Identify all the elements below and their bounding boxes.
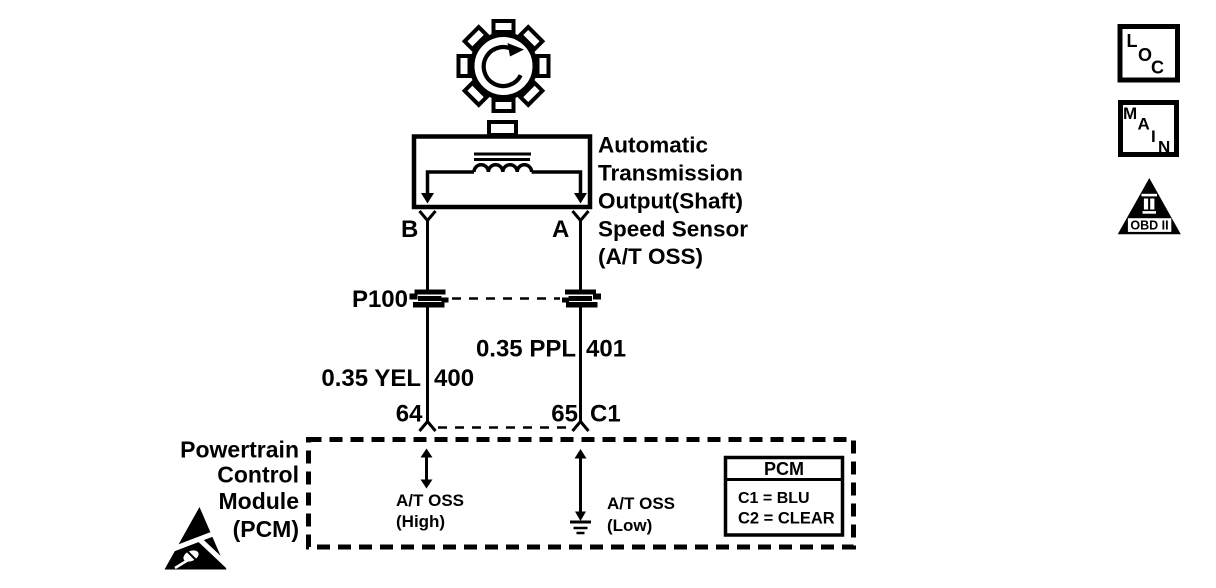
wire 400 (P100 to PCM pin 64) [426, 307, 429, 421]
gear / reluctor wheel icon of speed sensor [459, 21, 549, 111]
svg-text:B: B [401, 216, 418, 243]
svg-text:Control: Control [217, 462, 299, 488]
svg-text:C: C [1151, 58, 1164, 78]
svg-text:N: N [1158, 138, 1170, 157]
svg-text:PCM: PCM [764, 459, 804, 479]
sensor mounting tab [489, 122, 516, 135]
svg-text:I: I [1151, 127, 1156, 146]
svg-text:OBD II: OBD II [1130, 219, 1168, 233]
connector terminal Y at pin 65 [573, 422, 589, 432]
inductor coil L1 [474, 165, 532, 172]
OBD II symbol triangle [1118, 178, 1181, 234]
wire A to P100 [579, 220, 582, 291]
inductor core lines [474, 153, 531, 156]
connector terminal Y at pin A [573, 211, 589, 221]
wire from coil left end to internal terminal B [428, 172, 475, 194]
svg-text:C2 = CLEAR: C2 = CLEAR [738, 510, 835, 528]
inline connector P100 left half [410, 290, 449, 308]
PCM dashed box [309, 440, 854, 548]
svg-text:Module: Module [219, 488, 300, 514]
internal arrow at terminal B [421, 193, 434, 204]
svg-text:Speed Sensor: Speed Sensor [598, 217, 748, 242]
MAIN reference box [1121, 103, 1177, 157]
svg-text:0.35 YEL: 0.35 YEL [321, 365, 421, 392]
svg-text:400: 400 [434, 365, 474, 392]
svg-text:P100: P100 [352, 286, 408, 313]
dashed connector line P100 [452, 297, 560, 300]
sensor name label [598, 133, 748, 270]
svg-text:64: 64 [396, 401, 423, 428]
connector terminal Y at pin B [420, 211, 436, 221]
rotation arrow inside gear [484, 43, 524, 86]
svg-text:0.35 PPL: 0.35 PPL [476, 336, 576, 363]
wire 401 (P100 to PCM pin 65) [579, 307, 582, 421]
svg-text:O: O [1138, 45, 1152, 65]
ESD sensitive symbol [165, 507, 234, 571]
svg-text:(PCM): (PCM) [233, 516, 299, 542]
svg-text:C1 = BLU: C1 = BLU [738, 490, 810, 507]
svg-text:401: 401 [586, 336, 626, 363]
svg-text:(A/T OSS): (A/T OSS) [598, 244, 703, 269]
svg-text:C1: C1 [590, 401, 621, 428]
svg-text:A/T OSS: A/T OSS [607, 494, 675, 513]
A/T OSS Low wire with up arrow [575, 449, 587, 521]
svg-text:Powertrain: Powertrain [180, 437, 299, 463]
connector terminal Y at pin 64 [420, 422, 436, 432]
inline connector P100 right half [562, 290, 601, 308]
LOC reference box [1120, 27, 1178, 81]
svg-text:A: A [1138, 115, 1150, 134]
wire B to P100 [426, 220, 429, 291]
sensor body box (A/T OSS) [414, 137, 590, 208]
svg-text:65: 65 [551, 401, 578, 428]
dashed connector line C1 [438, 426, 570, 429]
PCM name label [180, 437, 299, 543]
internal arrow at terminal A [574, 193, 587, 204]
A/T OSS High double arrow inside PCM [421, 449, 433, 489]
PCM connector legend table [726, 458, 843, 536]
svg-text:A: A [552, 216, 569, 243]
svg-text:Output(Shaft): Output(Shaft) [598, 189, 743, 214]
svg-text:A/T OSS: A/T OSS [396, 491, 464, 510]
svg-text:(Low): (Low) [607, 516, 652, 535]
svg-text:(High): (High) [396, 512, 445, 531]
svg-text:Automatic: Automatic [598, 133, 708, 158]
ground symbol inside PCM [570, 522, 591, 533]
svg-text:M: M [1123, 104, 1137, 123]
wire from coil right end to internal terminal A [532, 172, 581, 194]
svg-text:L: L [1127, 31, 1138, 51]
svg-text:Transmission: Transmission [598, 161, 743, 186]
